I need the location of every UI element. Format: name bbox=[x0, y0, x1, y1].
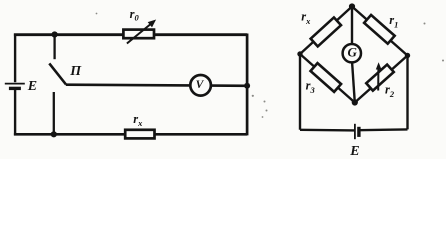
resistor r0 arrow bbox=[127, 23, 152, 44]
resistor r0 box (variable, top rail) bbox=[123, 30, 154, 39]
switch П blade bbox=[49, 63, 66, 84]
resistor r3 box bbox=[311, 63, 342, 92]
node R bridge right junction dot bbox=[405, 53, 410, 58]
wire bridge right side down bbox=[406, 56, 408, 130]
node B junction dot on right rail bbox=[244, 83, 250, 89]
wire bridge arm left-bottom (r3) bbox=[300, 54, 355, 103]
wire bottom rail left of battery bbox=[300, 129, 355, 132]
wire bridge arm bottom-right (r2) bbox=[355, 56, 408, 103]
svg-text:V: V bbox=[196, 79, 205, 91]
svg-text:П: П bbox=[69, 64, 82, 79]
resistor r2 box (variable) bbox=[366, 65, 394, 91]
svg-text:G: G bbox=[348, 44, 358, 59]
node C junction dot on bottom rail bbox=[51, 131, 57, 137]
wire right rail (left circuit) bbox=[246, 34, 249, 136]
battery E short plate bbox=[9, 87, 21, 90]
wire middle branch left (blade pivot to voltmeter) bbox=[66, 83, 191, 86]
wire top rail (left circuit) bbox=[14, 33, 247, 36]
wire G to bridge bottom vertex bbox=[352, 62, 355, 102]
wire middle branch right (voltmeter to right rail) bbox=[211, 84, 247, 87]
resistor rx bridge box bbox=[311, 17, 341, 46]
resistor rx box (bottom rail) bbox=[125, 130, 154, 139]
wire bottom rail (left circuit) bbox=[14, 133, 247, 136]
resistor r1 box bbox=[364, 15, 395, 44]
node T bridge top junction dot bbox=[349, 3, 355, 9]
voltmeter V circle bbox=[190, 75, 211, 96]
galvanometer G circle bbox=[343, 44, 361, 62]
node L bridge left junction dot bbox=[297, 51, 302, 56]
wire left rail upper (to battery) bbox=[14, 34, 16, 83]
speckle noise dots (scan artifacts) bbox=[96, 13, 444, 118]
battery E (bridge) short plate bbox=[357, 127, 360, 137]
svg-text:E: E bbox=[349, 144, 359, 159]
wire bridge left side down bbox=[299, 54, 301, 130]
wire bridge arm top-right (r1) bbox=[352, 7, 408, 56]
svg-text:E: E bbox=[27, 79, 37, 94]
wire left rail lower (from battery) bbox=[14, 88, 16, 135]
wire switch lower contact stub bbox=[53, 92, 55, 134]
wire bridge arm top-left (rx) bbox=[300, 7, 352, 55]
resistor r2 arrow bbox=[377, 67, 379, 91]
battery E long plate bbox=[5, 83, 25, 85]
wire switch upper contact stub bbox=[53, 35, 55, 60]
node Btm bridge bottom junction dot bbox=[352, 99, 358, 105]
wire bridge top vertex to G bbox=[351, 7, 353, 45]
node A junction dot on top rail bbox=[52, 31, 58, 37]
battery E (bridge) long plate bbox=[354, 124, 356, 139]
wire bottom rail right of battery bbox=[359, 128, 408, 131]
